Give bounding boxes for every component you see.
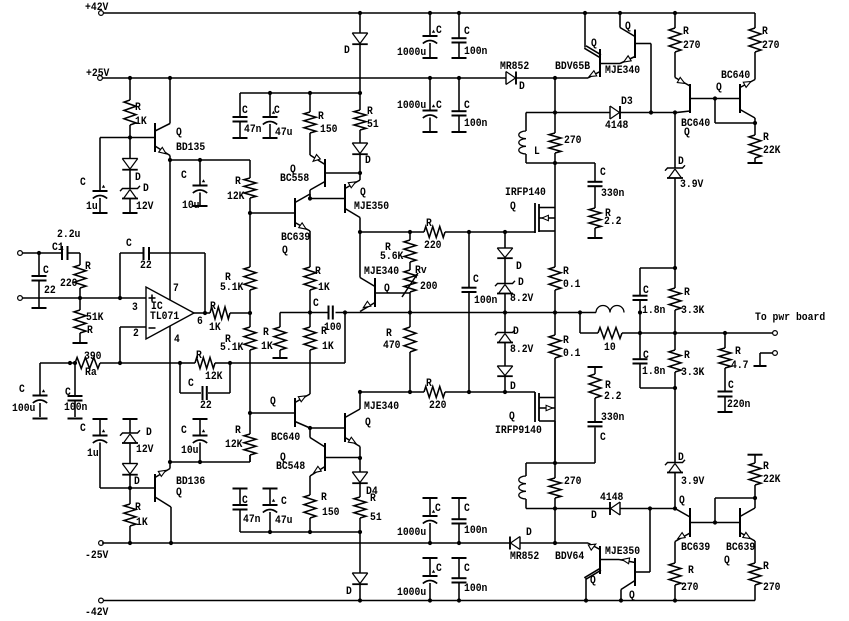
ground C9 [68,418,83,420]
ground C6 [32,307,47,309]
junction bias top [408,230,412,234]
svg-text:220n: 220n [727,399,750,411]
svg-text:390: 390 [84,351,102,363]
svg-text:D4: D4 [366,486,378,498]
wire c1.8n low [640,387,675,389]
ground R33 flipped [748,454,763,456]
wire D3 to bases [621,112,675,114]
svg-text:4: 4 [174,334,180,346]
capacitor C25 100n bottom [452,558,488,601]
junction -25/BD136 [169,541,173,545]
svg-text:100n: 100n [464,118,487,130]
svg-text:Q: Q [360,187,366,199]
svg-text:Q: Q [591,38,597,50]
svg-text:1K: 1K [209,322,221,334]
junction -42/R270 low [673,598,677,602]
svg-text:10u: 10u [181,445,199,457]
diode D16 [346,573,368,601]
inductor L1 [519,113,540,164]
capacitor C5 47u [263,93,293,139]
svg-text:0.1: 0.1 [563,279,581,291]
wire D18 to base [129,474,131,488]
svg-text:5.1K: 5.1K [220,282,244,294]
svg-text:C: C [643,350,649,362]
wire lower gate line b [445,391,535,393]
capacitor C19 100n [452,13,488,58]
svg-text:C: C [313,298,319,310]
svg-text:150: 150 [322,507,340,519]
transistor Q1 BD135 [155,78,206,160]
svg-text:BDV65B: BDV65B [555,61,590,73]
junction -42/D16 [358,598,362,602]
svg-text:1K: 1K [318,282,330,294]
svg-text:C: C [126,238,132,250]
transistor Q2 BC558 [280,133,360,199]
svg-text:Q: Q [716,82,722,94]
junction base link low [713,520,717,524]
svg-text:0.1: 0.1 [563,348,581,360]
resistor R37 12K lower [225,413,256,462]
svg-text:100n: 100n [64,402,87,414]
svg-text:C: C [643,285,649,297]
svg-text:R: R [135,502,141,514]
resistor R8 390 Ra [40,351,102,379]
svg-text:1.8n: 1.8n [642,366,665,378]
svg-text:R: R [688,565,694,577]
svg-text:R: R [196,350,202,362]
ground R24 [748,162,763,164]
svg-text:MJE340: MJE340 [364,266,399,278]
capacitor C23 100n lower [452,498,488,543]
junction C21 [457,76,461,80]
svg-text:8.2V: 8.2V [510,293,534,305]
wire fb top [120,252,143,254]
capacitor C15 1.8n lower [633,333,666,388]
svg-text:10: 10 [604,342,616,354]
wire r10 out [622,332,640,334]
wire zener mid a [504,294,506,313]
svg-text:Q: Q [270,396,276,408]
svg-text:BDV64: BDV64 [555,551,585,563]
svg-text:Q: Q [724,555,730,567]
resistor R32 270 left low [669,542,699,601]
svg-text:5.1K: 5.1K [220,342,244,354]
node +42V supply terminal [85,2,109,15]
resistor R24 22K [749,123,781,162]
wire emitter rail [170,159,250,161]
diode D7 [497,232,522,273]
transistor Q6 BDV65B [555,13,620,78]
svg-text:1000u: 1000u [397,527,426,539]
svg-text:Rv: Rv [415,265,427,277]
diode D10 [497,343,516,394]
capacitor C16 220n [718,380,751,411]
junction 4148/base low [648,506,652,510]
svg-text:100n: 100n [464,46,487,58]
svg-text:1000u: 1000u [397,47,426,59]
wire source down [554,208,556,268]
svg-text:R: R [735,346,741,358]
diode D11 MR852 [500,61,529,93]
wire filtered bias rail top [240,92,360,94]
capacitor C10 22 feedback [180,363,230,412]
svg-text:R: R [135,102,141,114]
diode D17 zener 12V lower [120,419,154,456]
svg-text:220: 220 [429,400,447,412]
wire fb top right [149,253,205,313]
svg-text:IRFP9140: IRFP9140 [495,425,542,437]
junction -25/R1K [128,541,132,545]
pot RV1 200 [402,262,438,297]
junction limiter low [673,506,677,510]
transistor Q16 BC548 [276,428,360,476]
svg-text:D: D [135,172,141,184]
svg-text:1K: 1K [135,116,147,128]
svg-text:1u: 1u [87,448,99,460]
transistor Q5 MJE340 upper [360,232,399,312]
svg-text:Q: Q [590,575,596,587]
junction collector bias [358,230,362,234]
ground C20 [423,131,438,133]
ground R19 [588,237,603,239]
svg-text:D: D [344,45,350,57]
wire zener bottom [504,377,506,392]
resistor R34 270 right low [749,541,781,601]
svg-text:47n: 47n [244,124,262,136]
junction fb caps b [73,361,77,365]
diode D8 zener 8.2V [495,259,534,306]
wire -25V rail mid [521,542,589,544]
junction fb tap [343,310,347,314]
junction gate cap top [467,230,471,234]
svg-text:22K: 22K [763,145,781,157]
transistor Q7 MJE340 top [605,13,651,77]
svg-text:47u: 47u [275,127,293,139]
junction input/C22 [37,251,41,255]
resistor R11 5.1K lower [220,313,256,354]
svg-text:C: C [464,26,470,38]
resistor R6 51K [74,298,104,342]
wire mid rail [336,312,597,314]
svg-text:D: D [678,452,684,464]
junction base link [713,96,717,100]
wire x250 down [249,350,251,413]
wire R1K to BD135 base [130,125,155,138]
transistor Q15 BC639 right [724,498,755,567]
wire to D3 [555,112,610,114]
ground C5 [263,137,278,139]
svg-text:BC548: BC548 [276,461,306,473]
svg-text:22: 22 [44,285,56,297]
junction zobel out [638,310,642,314]
capacitor C9 100n [64,363,87,417]
svg-text:C: C [65,387,71,399]
wire 4148 line [526,508,610,510]
junction gate cap bottom [467,390,471,394]
wire upper gate line b [445,231,535,233]
resistor R35 51 lower [354,484,382,532]
svg-text:C: C [242,495,248,507]
wire base link low [690,522,740,524]
wire VAS to MJE350 base [310,198,345,200]
svg-text:R: R [563,335,569,347]
svg-text:D: D [346,586,352,598]
wire zobel down [579,313,581,334]
svg-text:6: 6 [197,316,203,328]
wire to 9140 source [554,358,556,463]
wire R1Kfb to rail [230,312,250,314]
svg-text:12V: 12V [136,201,154,213]
svg-text:2.2: 2.2 [604,216,622,228]
junction filtered low [358,530,362,534]
svg-text:MJE350: MJE350 [354,201,389,213]
junction drain node low [553,461,557,465]
wire L bottom [526,162,555,164]
svg-text:BC640: BC640 [721,70,750,82]
svg-text:4148: 4148 [605,120,629,132]
svg-text:MR852: MR852 [500,61,529,73]
svg-text:C: C [181,170,187,182]
svg-text:330n: 330n [601,412,624,424]
junction R22K top [753,121,757,125]
wire zener low [675,473,685,509]
svg-text:7: 7 [173,283,179,295]
junction +25V/BD135 collector [168,76,172,80]
svg-text:3: 3 [132,302,138,314]
junction +42V/D5 [358,11,362,15]
svg-text:R: R [684,287,690,299]
transistor Q12 BDV64 [555,543,619,601]
junction +25 node [553,76,557,80]
inductor L2 output [596,306,624,313]
svg-text:C: C [43,265,49,277]
svg-text:BC558: BC558 [280,173,310,185]
svg-text:270: 270 [762,40,780,52]
junction R150 low [308,530,312,534]
node +25V supply terminal [86,68,110,80]
svg-text:51: 51 [367,119,379,131]
resistor R4 51 [354,93,379,131]
svg-text:Q: Q [282,245,288,257]
svg-text:R: R [426,218,432,230]
diode D18 lower [122,443,140,488]
svg-text:Q: Q [629,590,635,602]
junction div bottom [673,386,677,390]
junction out/R1Kfb [248,311,252,315]
svg-text:1000u: 1000u [397,587,426,599]
svg-text:Q: Q [384,283,390,295]
junction diode feed [358,91,362,95]
svg-text:270: 270 [681,582,699,594]
capacitor C17 330n lower [588,412,625,463]
svg-text:R: R [762,26,768,38]
svg-text:1.8n: 1.8n [642,305,665,317]
resistor R25 3.3K upper [669,268,705,333]
svg-text:C: C [188,378,194,390]
wire to MJE340 low base [310,427,345,429]
diode D5 [344,13,368,57]
wire L3 top [526,462,555,464]
svg-text:R: R [87,325,93,337]
diode D1 [122,138,141,185]
svg-text:100: 100 [324,322,342,334]
junction +42/BDV65B [583,11,587,15]
wire D5 to node [359,45,361,93]
wire 9140 drain [554,421,556,463]
wire lower gate line [360,391,424,393]
ground R6 [73,342,88,344]
svg-text:D: D [510,381,516,393]
wire zobel drop [639,313,641,334]
resistor R15 5.6K [380,232,416,263]
wire output line [640,332,773,334]
node -42V supply terminal [85,598,109,619]
ground C19 [452,57,467,59]
junction -42/MJE350 [619,598,623,602]
diode D13 4148 lower [591,492,624,522]
svg-text:D: D [134,476,140,488]
svg-text:12K: 12K [225,439,243,451]
wire +25V rail right [517,77,589,79]
svg-text:C: C [464,100,470,112]
svg-text:22: 22 [200,400,212,412]
wire +25V rail left [102,77,506,79]
junction fb caps a [68,361,72,365]
capacitor C11 100 [313,298,342,334]
transistor Q3 BC639 upper [281,194,310,267]
junction +25V/R1K [128,76,132,80]
svg-text:Q: Q [625,21,631,33]
svg-text:IRFP140: IRFP140 [505,187,546,199]
diode D9 zener 8.2V [495,313,534,357]
wire upper gate line [360,231,424,233]
svg-text:R: R [683,26,689,38]
svg-text:22K: 22K [763,474,781,486]
junction R12K/BC639 [248,211,252,215]
svg-text:3.9V: 3.9V [681,476,705,488]
junction out line a [638,331,642,335]
svg-text:C: C [728,380,734,392]
ground D2 [123,199,138,214]
wire zener to divider [674,178,676,268]
junction C18 [428,11,432,15]
svg-text:TL071: TL071 [150,311,180,323]
resistor R19 2.2 [589,208,622,237]
wire drive to -25 [554,509,556,544]
junction zener top [503,230,507,234]
op-amp U1 TL071 [146,287,194,339]
svg-text:C: C [181,425,187,437]
resistor R36 150 lower [304,476,340,532]
junction output node [203,311,207,315]
capacitor C29 1u lower [80,419,130,488]
wire +42V rail [103,12,755,14]
resistor R9 12K feedback [180,350,230,383]
resistor R28 4.7 [719,333,749,391]
ground C2 [93,212,108,214]
junction +42/MJE340 [618,11,622,15]
svg-text:BC639: BC639 [281,232,310,244]
svg-text:R: R [85,261,91,273]
wire diode-connect [715,99,755,124]
svg-text:-42V: -42V [85,607,109,619]
wire D6 to cascode [359,154,361,173]
node -25V supply terminal [85,541,109,562]
svg-text:Q: Q [679,495,685,507]
svg-text:47n: 47n [243,514,261,526]
svg-text:MJE350: MJE350 [605,546,640,558]
capacitor C13 330n [588,163,625,208]
resistor R16 220 upper [424,218,445,252]
svg-text:Q: Q [509,411,515,423]
transistor Q4 MJE350 upper [345,173,389,232]
svg-text:C: C [464,563,470,575]
capacitor C7 22 feedback [126,238,152,272]
wire -25V rail left [102,542,510,544]
svg-text:100n: 100n [474,295,497,307]
ground R12 [273,357,288,359]
diode D6 [352,130,371,167]
svg-text:12K: 12K [205,371,223,383]
node input terminal hot [18,251,23,256]
diode D3 4148 [605,96,633,132]
svg-text:-25V: -25V [85,550,109,562]
junction R470 bottom [408,390,412,394]
junction C47u top [268,91,272,95]
capacitor C2 1u [80,177,108,213]
resistor R26 10 [580,328,622,355]
resistor R14 1K lower [304,313,334,354]
svg-text:D: D [143,183,149,195]
svg-text:2: 2 [133,328,139,340]
junction -25 node [553,541,557,545]
resistor R23 270 right [749,13,780,52]
svg-text:270: 270 [564,476,582,488]
svg-text:330n: 330n [601,188,624,200]
svg-text:C: C [473,274,479,286]
resistor R7 1K feedback [209,301,230,334]
svg-text:1u: 1u [86,201,98,213]
svg-text:D3: D3 [621,96,633,108]
svg-text:C: C [242,105,248,117]
resistor R27 3.3K lower [669,333,705,388]
diode D12 zener 3.9V [665,113,704,191]
svg-text:Q: Q [176,127,182,139]
svg-text:BC640: BC640 [271,432,300,444]
resistor R3 150 [304,93,338,136]
junction BD136 emitter [168,460,172,464]
junction out line b [673,331,677,335]
svg-text:MJE340: MJE340 [364,401,399,413]
wire diode-connect low [715,498,755,523]
junction base node BD135 [128,135,132,139]
pin 2 label [133,328,139,340]
svg-text:C: C [19,384,25,396]
wire return [760,353,773,365]
wire op-amp output [194,312,210,314]
wire 4148 to bases [620,508,675,510]
wire pin2 stub [120,327,146,363]
junction base node BD136 [128,486,132,490]
svg-text:D: D [526,527,532,539]
junction +in/C22fb [118,296,122,300]
junction drive node low [553,506,557,510]
diode D4 [352,458,378,498]
pin 4 label+wire [170,326,180,462]
junction drain node [553,110,557,114]
svg-text:BD135: BD135 [176,142,206,154]
svg-text:D: D [518,277,524,289]
